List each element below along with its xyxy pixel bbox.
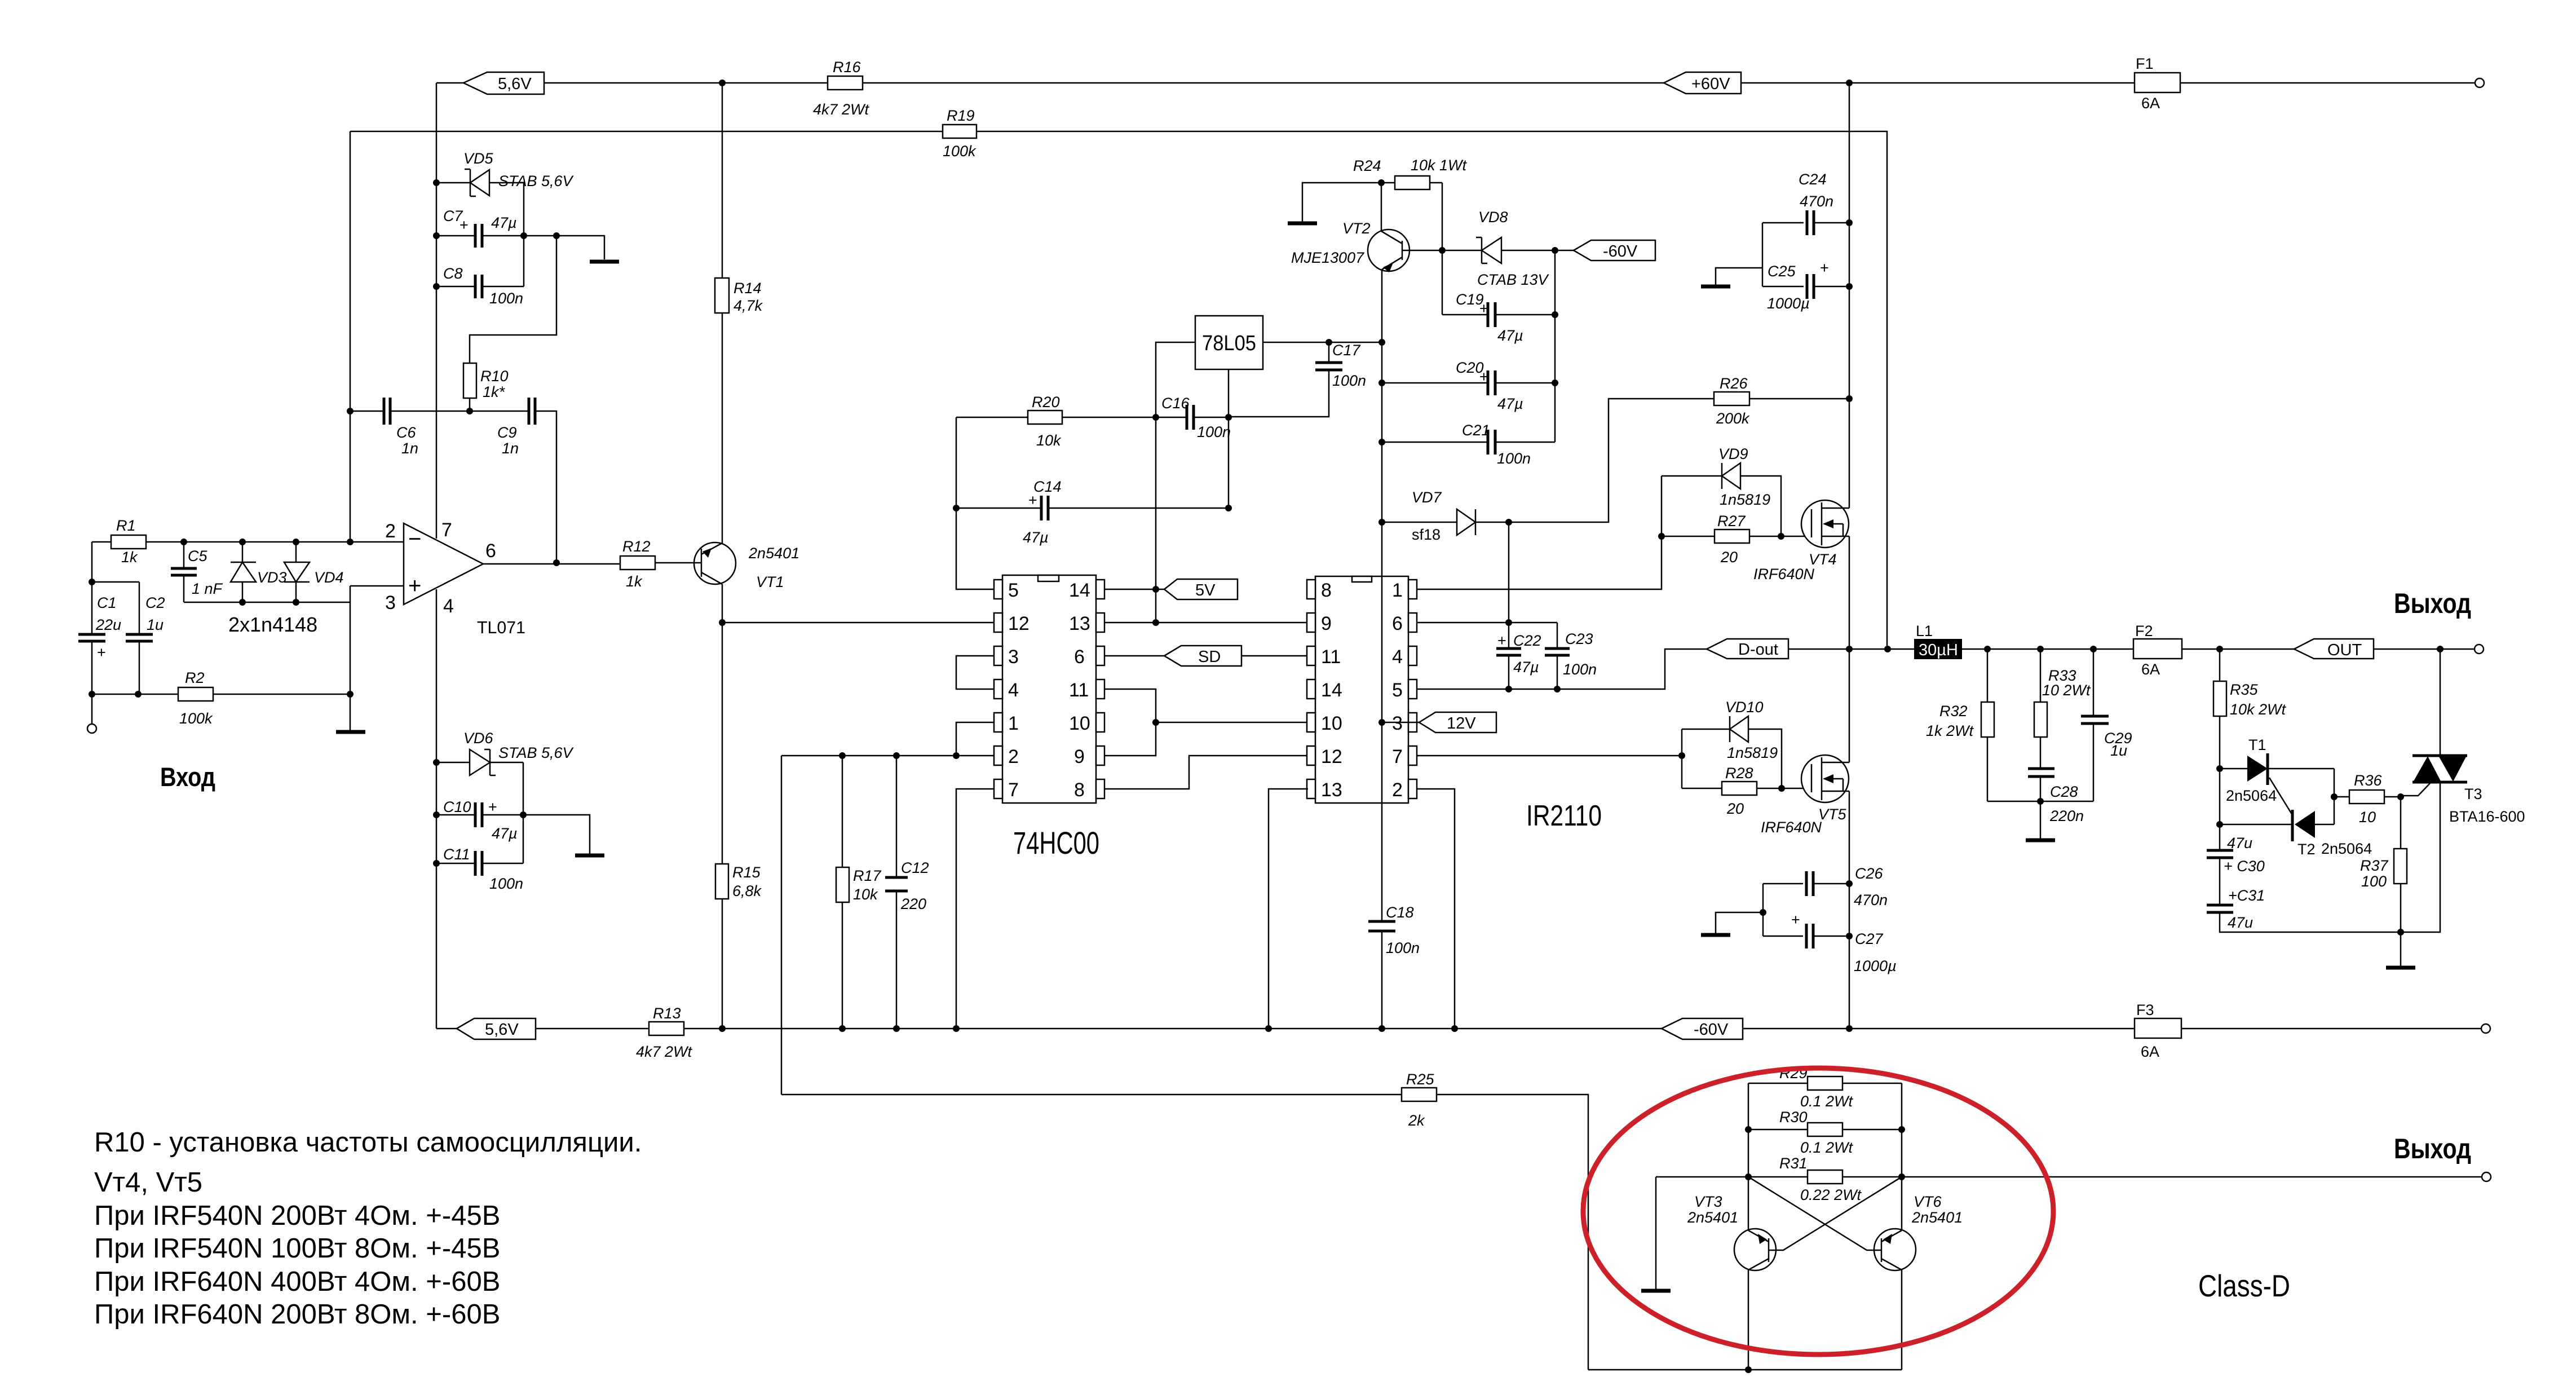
svg-text:6,8k: 6,8k xyxy=(732,883,762,899)
svg-text:2n5401: 2n5401 xyxy=(1687,1209,1738,1226)
transistor VT6 2n5401 xyxy=(1748,1177,1963,1270)
wire VD7 node down to pin6 row xyxy=(1508,522,1510,623)
capacitor C21 xyxy=(1382,422,1555,467)
wire IR pin1 to gate bracket xyxy=(1417,476,1662,589)
wire pin2 row xyxy=(781,755,994,757)
wire rail right of tag xyxy=(1743,1028,2481,1030)
svg-text:1k*: 1k* xyxy=(483,383,506,400)
svg-text:220n: 220n xyxy=(2049,808,2084,824)
resistor R36 xyxy=(2334,772,2401,826)
svg-text:F2: F2 xyxy=(2135,623,2153,639)
capacitor C19 xyxy=(1442,291,1555,344)
svg-text:8: 8 xyxy=(1321,580,1332,601)
svg-text:VD8: VD8 xyxy=(1478,209,1508,226)
wire VD6 cathode vertical x928 xyxy=(523,762,524,863)
svg-text:C26: C26 xyxy=(1855,865,1884,882)
net tag SD xyxy=(1104,646,1308,666)
zener diode VD5 xyxy=(436,150,575,196)
svg-text:2n5401: 2n5401 xyxy=(748,545,799,562)
svg-text:Vт4, Vт5: Vт4, Vт5 xyxy=(94,1167,202,1198)
svg-text:1u: 1u xyxy=(147,616,164,633)
svg-text:VT5: VT5 xyxy=(1818,806,1847,823)
svg-text:47u: 47u xyxy=(2228,914,2253,931)
svg-text:6A: 6A xyxy=(2141,661,2160,678)
capacitor C16 xyxy=(1161,395,1231,440)
wire R10 feedback jog xyxy=(470,236,556,363)
resistor R12 xyxy=(620,538,695,590)
wire pin5 row xyxy=(1417,649,1707,689)
svg-text:-60V: -60V xyxy=(1603,242,1638,261)
svg-text:При IRF640N 200Вт 8Ом. +-60В: При IRF640N 200Вт 8Ом. +-60В xyxy=(94,1299,500,1330)
svg-text:VT1: VT1 xyxy=(756,573,784,590)
diode VD10 1n5819 xyxy=(1682,699,1782,788)
svg-text:VD4: VD4 xyxy=(314,569,344,586)
wire VT2 base vertical x2558 xyxy=(1442,183,1443,315)
svg-text:R12: R12 xyxy=(622,538,651,555)
svg-text:VD5: VD5 xyxy=(463,150,494,167)
svg-text:F1: F1 xyxy=(2136,55,2154,72)
svg-text:D-out: D-out xyxy=(1738,641,1778,659)
resistor R15 xyxy=(715,864,762,899)
svg-text:VT2: VT2 xyxy=(1342,220,1371,237)
svg-text:1k: 1k xyxy=(121,549,138,566)
svg-text:+: + xyxy=(488,798,497,815)
svg-text:VD7: VD7 xyxy=(1412,489,1442,506)
wire VT2 emitter vertical x2451 xyxy=(1381,270,1383,1029)
svg-text:6: 6 xyxy=(1392,613,1403,634)
ground (R37/C31) xyxy=(2386,932,2415,968)
svg-text:R13: R13 xyxy=(653,1005,681,1022)
svg-text:470n: 470n xyxy=(1800,193,1833,210)
net tag +60V xyxy=(1664,72,1741,94)
svg-text:+60V: +60V xyxy=(1691,75,1730,93)
net tag 5,6V (top) xyxy=(463,72,544,94)
capacitor C27 xyxy=(1763,884,1897,974)
svg-text:12: 12 xyxy=(1321,746,1342,767)
svg-text:13: 13 xyxy=(1069,613,1090,634)
svg-text:1000µ: 1000µ xyxy=(1767,295,1810,312)
wire gate to triac xyxy=(2401,783,2431,796)
wire x774 upper vertical xyxy=(436,83,438,539)
svg-text:C8: C8 xyxy=(443,265,463,282)
svg-text:470n: 470n xyxy=(1854,892,1888,908)
svg-text:R15: R15 xyxy=(732,864,761,881)
svg-text:C6: C6 xyxy=(396,424,416,441)
svg-text:R10 - установка частоты самоос: R10 - установка частоты самоосцилляции. xyxy=(94,1127,642,1158)
diode VD3 xyxy=(231,542,287,602)
svg-text:+: + xyxy=(1479,368,1488,385)
wire pin8 to IR pin12 xyxy=(1104,756,1308,789)
svg-text:R26: R26 xyxy=(1720,375,1748,392)
svg-text:20: 20 xyxy=(1726,800,1744,817)
triac T3 BTA16-600 xyxy=(2401,649,2525,932)
svg-text:0.1 2Wt: 0.1 2Wt xyxy=(1800,1093,1854,1110)
resistor R28 xyxy=(1682,765,1811,817)
svg-text:10k 2Wt: 10k 2Wt xyxy=(2230,701,2287,718)
wire sense block right vertical xyxy=(1901,1083,1903,1370)
svg-text:100k: 100k xyxy=(179,710,213,727)
svg-text:C2: C2 xyxy=(145,594,165,611)
svg-text:4: 4 xyxy=(443,595,454,617)
MOSFET VT5 IRF640N xyxy=(1761,755,1849,836)
wire R24 row xyxy=(1302,183,1395,223)
capacitor C30 xyxy=(2207,835,2265,905)
resistor R25 xyxy=(781,1071,1588,1370)
svg-text:R17: R17 xyxy=(853,867,882,884)
wire output row xyxy=(1849,648,2294,650)
svg-text:4,7k: 4,7k xyxy=(734,297,763,314)
svg-text:10: 10 xyxy=(1321,713,1342,734)
svg-text:R24: R24 xyxy=(1353,157,1381,174)
wire pin5 left bracket xyxy=(956,417,994,589)
svg-text:9: 9 xyxy=(1321,613,1332,634)
svg-text:STAB 5,6V: STAB 5,6V xyxy=(498,744,575,761)
svg-text:100n: 100n xyxy=(489,875,523,892)
net tag OUT xyxy=(2294,639,2475,659)
capacitor C23 xyxy=(1545,623,1597,689)
transistor VT3 2n5401 xyxy=(1687,1177,1902,1270)
terminal input xyxy=(87,724,96,733)
diode VD4 xyxy=(284,542,344,602)
svg-text:11: 11 xyxy=(1069,680,1089,701)
svg-text:1n5819: 1n5819 xyxy=(1720,491,1770,508)
svg-text:R31: R31 xyxy=(1779,1155,1808,1172)
svg-text:1u: 1u xyxy=(2110,742,2127,759)
wire op-amp supply pin4 vertical xyxy=(436,589,438,1029)
svg-text:100n: 100n xyxy=(1563,661,1597,678)
svg-text:C12: C12 xyxy=(901,859,929,876)
capacitor C11 xyxy=(436,846,523,892)
IC U2 74HC00 xyxy=(994,575,1104,861)
svg-text:74HC00: 74HC00 xyxy=(1013,825,1099,861)
svg-text:6: 6 xyxy=(485,540,496,562)
svg-text:−: − xyxy=(408,527,421,551)
capacitor C25 xyxy=(1762,223,1849,312)
thyristor T2 2n5064 xyxy=(2220,810,2372,858)
svg-text:C10: C10 xyxy=(443,798,471,815)
ground (C10/C11) xyxy=(575,854,604,858)
svg-text:Выход: Выход xyxy=(2394,588,2471,619)
capacitor C29 xyxy=(2081,649,2132,801)
capacitor C24 xyxy=(1762,171,1849,235)
wire pins 11-10-9 bracket xyxy=(1104,689,1308,756)
svg-text:10: 10 xyxy=(2359,809,2376,826)
wire 78L05 left to 5V vertical xyxy=(1156,342,1195,623)
wire T1/T2 right bracket xyxy=(2334,769,2335,824)
svg-text:TL071: TL071 xyxy=(477,617,525,637)
transistor VT2 MJE13007 xyxy=(1291,183,1442,272)
svg-text:10k 1Wt: 10k 1Wt xyxy=(1411,157,1468,174)
svg-text:47µ: 47µ xyxy=(1497,395,1523,412)
svg-text:14: 14 xyxy=(1321,680,1342,701)
svg-text:13: 13 xyxy=(1321,779,1342,801)
svg-text:R19: R19 xyxy=(947,107,975,124)
resistor R30 xyxy=(1748,1109,1902,1156)
svg-text:STAB 5,6V: STAB 5,6V xyxy=(498,173,575,189)
wire sense block left vertical xyxy=(1748,1083,1749,1370)
capacitor C20 xyxy=(1382,359,1555,412)
resistor R33 xyxy=(2034,649,2091,769)
svg-text:+ C30: + C30 xyxy=(2224,858,2265,875)
svg-text:При IRF640N 400Вт 4Ом. +-60В: При IRF640N 400Вт 4Ом. +-60В xyxy=(94,1267,500,1297)
svg-text:+: + xyxy=(97,644,106,661)
wire IR pin13 down to rail xyxy=(1269,789,1308,1029)
wire sense block bottom rail xyxy=(1588,1369,1902,1371)
svg-text:4: 4 xyxy=(1392,646,1403,668)
svg-text:0.1 2Wt: 0.1 2Wt xyxy=(1800,1139,1854,1156)
resistor R2 xyxy=(92,669,350,727)
capacitor C6 xyxy=(384,398,418,457)
ground (sense block) xyxy=(1641,1177,1671,1291)
node +60V vertical xyxy=(1846,80,1853,86)
resistor R37 xyxy=(2360,797,2407,932)
svg-text:R28: R28 xyxy=(1725,765,1753,782)
svg-text:+: + xyxy=(1820,259,1829,276)
svg-text:VD3: VD3 xyxy=(257,569,287,586)
resistor R29 xyxy=(1748,1065,1902,1110)
capacitor C9 xyxy=(497,398,535,457)
svg-text:1000µ: 1000µ xyxy=(1854,958,1897,974)
diode VD7 sf18 xyxy=(1382,489,1509,543)
svg-text:C23: C23 xyxy=(1565,630,1593,647)
svg-text:100n: 100n xyxy=(1497,450,1531,467)
wire C19-C21 right vertical x2758 xyxy=(1554,250,1556,442)
diode VD9 1n5819 xyxy=(1662,445,1781,536)
svg-text:2n5064: 2n5064 xyxy=(2226,787,2277,804)
svg-text:C5: C5 xyxy=(188,548,207,564)
svg-text:2: 2 xyxy=(1008,746,1019,767)
resistor R19 xyxy=(943,107,977,160)
svg-text:R14: R14 xyxy=(734,280,762,297)
svg-text:VD6: VD6 xyxy=(463,730,494,747)
svg-text:10 2Wt: 10 2Wt xyxy=(2042,682,2091,699)
svg-text:6: 6 xyxy=(1074,646,1085,668)
wire pin7 down xyxy=(956,789,994,1029)
svg-text:IRF640N: IRF640N xyxy=(1753,566,1815,583)
capacitor C2 xyxy=(92,582,165,694)
wire op-amp output xyxy=(483,563,620,565)
svg-text:+: + xyxy=(1028,492,1037,509)
svg-text:Выход: Выход xyxy=(2394,1133,2471,1164)
svg-text:3: 3 xyxy=(1392,713,1403,734)
net tag -60V (bottom) xyxy=(1662,1018,1743,1039)
capacitor C28 xyxy=(2028,769,2084,839)
node VD5 left xyxy=(433,179,440,186)
svg-text:SD: SD xyxy=(1198,648,1221,666)
svg-text:2n5064: 2n5064 xyxy=(2321,840,2372,857)
net tag 5,6V (bottom) xyxy=(436,1018,536,1039)
svg-text:11: 11 xyxy=(1321,646,1341,668)
svg-text:BTA16-600: BTA16-600 xyxy=(2449,808,2525,825)
ground (R24) xyxy=(1288,222,1317,226)
svg-text:C21: C21 xyxy=(1462,422,1490,439)
svg-text:При IRF540N 200Вт 4Ом. +-45В: При IRF540N 200Вт 4Ом. +-45В xyxy=(94,1201,500,1231)
svg-text:100n: 100n xyxy=(489,290,523,307)
svg-text:200k: 200k xyxy=(1716,410,1750,427)
svg-text:2: 2 xyxy=(385,520,396,542)
svg-text:R37: R37 xyxy=(2360,857,2389,874)
svg-text:+: + xyxy=(1479,300,1488,317)
svg-text:1n5819: 1n5819 xyxy=(1727,744,1778,761)
svg-text:2: 2 xyxy=(1392,779,1403,801)
wire 78L05 bottom xyxy=(1228,369,1230,508)
svg-text:100n: 100n xyxy=(1386,939,1420,956)
svg-text:C11: C11 xyxy=(443,846,470,863)
regulator 78L05 xyxy=(1195,316,1263,369)
svg-text:C17: C17 xyxy=(1332,342,1361,359)
wire IR pin3 row + 12V tag xyxy=(1382,722,1435,723)
wire VT5 source down to rail xyxy=(1849,791,1850,1029)
svg-text:1n: 1n xyxy=(502,440,519,457)
net tag D-out xyxy=(1707,639,1849,659)
svg-text:3: 3 xyxy=(385,592,396,614)
wire diode bottom rail xyxy=(184,586,404,731)
capacitor C26 xyxy=(1763,865,1888,908)
svg-text:12V: 12V xyxy=(1447,714,1476,733)
ground (C7/C8 right) xyxy=(590,260,619,264)
resistor R10 xyxy=(463,363,509,411)
svg-text:C24: C24 xyxy=(1799,171,1827,188)
ground (C24/C25) xyxy=(1701,268,1762,286)
svg-text:R1: R1 xyxy=(116,517,136,534)
op-amp U1 TL071 xyxy=(385,519,525,637)
resistor R17 xyxy=(836,756,882,1029)
svg-text:sf18: sf18 xyxy=(1412,526,1441,543)
svg-text:20: 20 xyxy=(1720,549,1738,566)
svg-text:R2: R2 xyxy=(185,669,205,686)
svg-text:VT6: VT6 xyxy=(1914,1193,1942,1210)
capacitor C22 xyxy=(1496,623,1541,689)
wire R32/C28/C29 bottom bus xyxy=(1987,801,2093,802)
svg-text:+C31: +C31 xyxy=(2228,887,2265,904)
wire pin1 to pin2 xyxy=(956,722,994,756)
net tag 12V xyxy=(1419,712,1496,733)
svg-text:0.22 2Wt: 0.22 2Wt xyxy=(1800,1186,1862,1203)
resistor R14 xyxy=(715,278,763,314)
svg-text:7: 7 xyxy=(1392,746,1403,767)
svg-text:47µ: 47µ xyxy=(1513,659,1539,676)
svg-text:T2: T2 xyxy=(2297,841,2316,858)
capacitor C14 xyxy=(956,478,1229,546)
svg-text:L1: L1 xyxy=(1916,623,1933,639)
wire top rail left xyxy=(436,82,828,84)
svg-text:R25: R25 xyxy=(1406,1071,1435,1088)
svg-text:100n: 100n xyxy=(1197,423,1231,440)
svg-text:T1: T1 xyxy=(2248,736,2266,753)
svg-text:C22: C22 xyxy=(1513,632,1541,649)
svg-text:C28: C28 xyxy=(2050,783,2078,800)
svg-text:10: 10 xyxy=(1069,713,1090,734)
svg-text:T3: T3 xyxy=(2464,786,2482,802)
svg-text:R10: R10 xyxy=(480,368,509,385)
svg-text:Class-D: Class-D xyxy=(2198,1268,2290,1303)
svg-text:IRF640N: IRF640N xyxy=(1761,819,1822,836)
transistor VT1 2n5401 xyxy=(694,542,799,590)
wire top rail mid xyxy=(863,82,1664,84)
ground (C26/C27) xyxy=(1701,912,1763,935)
capacitor C7 xyxy=(436,208,604,259)
resistor R16 xyxy=(813,59,870,118)
terminal -60V xyxy=(2481,1024,2490,1033)
svg-text:30µH: 30µH xyxy=(1919,641,1958,659)
resistor R26 xyxy=(1714,375,1849,427)
svg-text:-60V: -60V xyxy=(1694,1021,1729,1039)
terminal OUT xyxy=(2475,645,2484,654)
capacitor C8 xyxy=(436,265,524,307)
wire VD5 anode vertical x929 xyxy=(523,183,525,286)
ground (C28) xyxy=(2026,839,2055,842)
svg-text:7: 7 xyxy=(1008,779,1019,801)
svg-text:10k: 10k xyxy=(1036,432,1062,449)
node R16 left xyxy=(719,80,726,86)
resistor R13 xyxy=(536,1005,1662,1060)
wire pin3-pin4 bracket xyxy=(956,656,994,689)
svg-text:2x1n4148: 2x1n4148 xyxy=(228,613,317,636)
wire IR pin7 to gate bracket xyxy=(1417,755,1682,757)
inductor L1 30µH xyxy=(1914,623,1962,659)
svg-text:5: 5 xyxy=(1008,580,1019,601)
svg-text:4k7 2Wt: 4k7 2Wt xyxy=(813,101,870,118)
svg-text:IR2110: IR2110 xyxy=(1526,800,1602,832)
svg-text:C1: C1 xyxy=(97,594,117,611)
ground (input plus node) xyxy=(336,730,365,734)
svg-text:78L05: 78L05 xyxy=(1202,332,1256,355)
svg-text:VT3: VT3 xyxy=(1694,1193,1722,1210)
node VT1 collector to 74HC00 pin12 xyxy=(719,619,726,626)
net tag -60V (upper) xyxy=(1574,240,1655,261)
resistor R27 xyxy=(1662,513,1811,566)
svg-text:220: 220 xyxy=(900,895,926,912)
svg-text:9: 9 xyxy=(1074,746,1085,767)
svg-text:R30: R30 xyxy=(1779,1109,1808,1126)
svg-text:VD9: VD9 xyxy=(1718,445,1748,462)
wire top rail right xyxy=(1741,82,2475,84)
IC U3 IR2110 xyxy=(1307,576,1602,832)
svg-text:100k: 100k xyxy=(943,143,977,160)
wire VT2 emitter line crossing IR2110 body xyxy=(1381,576,1383,803)
capacitor C17 xyxy=(1229,342,1382,417)
wire IR pin2 down to rail xyxy=(1417,789,1455,1029)
terminal output bottom xyxy=(2482,1172,2491,1181)
svg-text:R16: R16 xyxy=(833,59,861,76)
zener diode VD8 xyxy=(1442,209,1574,288)
svg-text:10k: 10k xyxy=(853,886,878,903)
wire VT1 emitter up / collector down xyxy=(722,83,723,1029)
svg-text:MJE13007: MJE13007 xyxy=(1291,249,1364,266)
svg-text:C9: C9 xyxy=(497,424,517,441)
svg-text:C14: C14 xyxy=(1033,478,1062,495)
zener diode VD6 xyxy=(436,730,575,775)
svg-text:14: 14 xyxy=(1069,580,1090,601)
wire pin13 row to IR2110 pin9 xyxy=(1104,622,1308,624)
resistor R32 xyxy=(1926,649,1994,801)
svg-text:47µ: 47µ xyxy=(492,825,518,842)
svg-text:1n: 1n xyxy=(401,440,418,457)
svg-text:2n5401: 2n5401 xyxy=(1911,1209,1963,1226)
MOSFET VT4 IRF640N xyxy=(1753,500,1849,583)
red ellipse highlight xyxy=(1583,1068,2053,1354)
fuse F1 xyxy=(2135,55,2180,112)
capacitor C10 xyxy=(436,798,590,854)
svg-text:+: + xyxy=(459,217,469,233)
svg-text:C16: C16 xyxy=(1161,395,1190,412)
svg-text:5,6V: 5,6V xyxy=(498,75,532,93)
wire VD7 node to R26 xyxy=(1509,399,1714,522)
svg-text:5: 5 xyxy=(1392,680,1403,701)
svg-text:R36: R36 xyxy=(2354,772,2383,789)
svg-text:8: 8 xyxy=(1074,779,1085,801)
svg-text:CTAB 13V: CTAB 13V xyxy=(1477,271,1550,288)
